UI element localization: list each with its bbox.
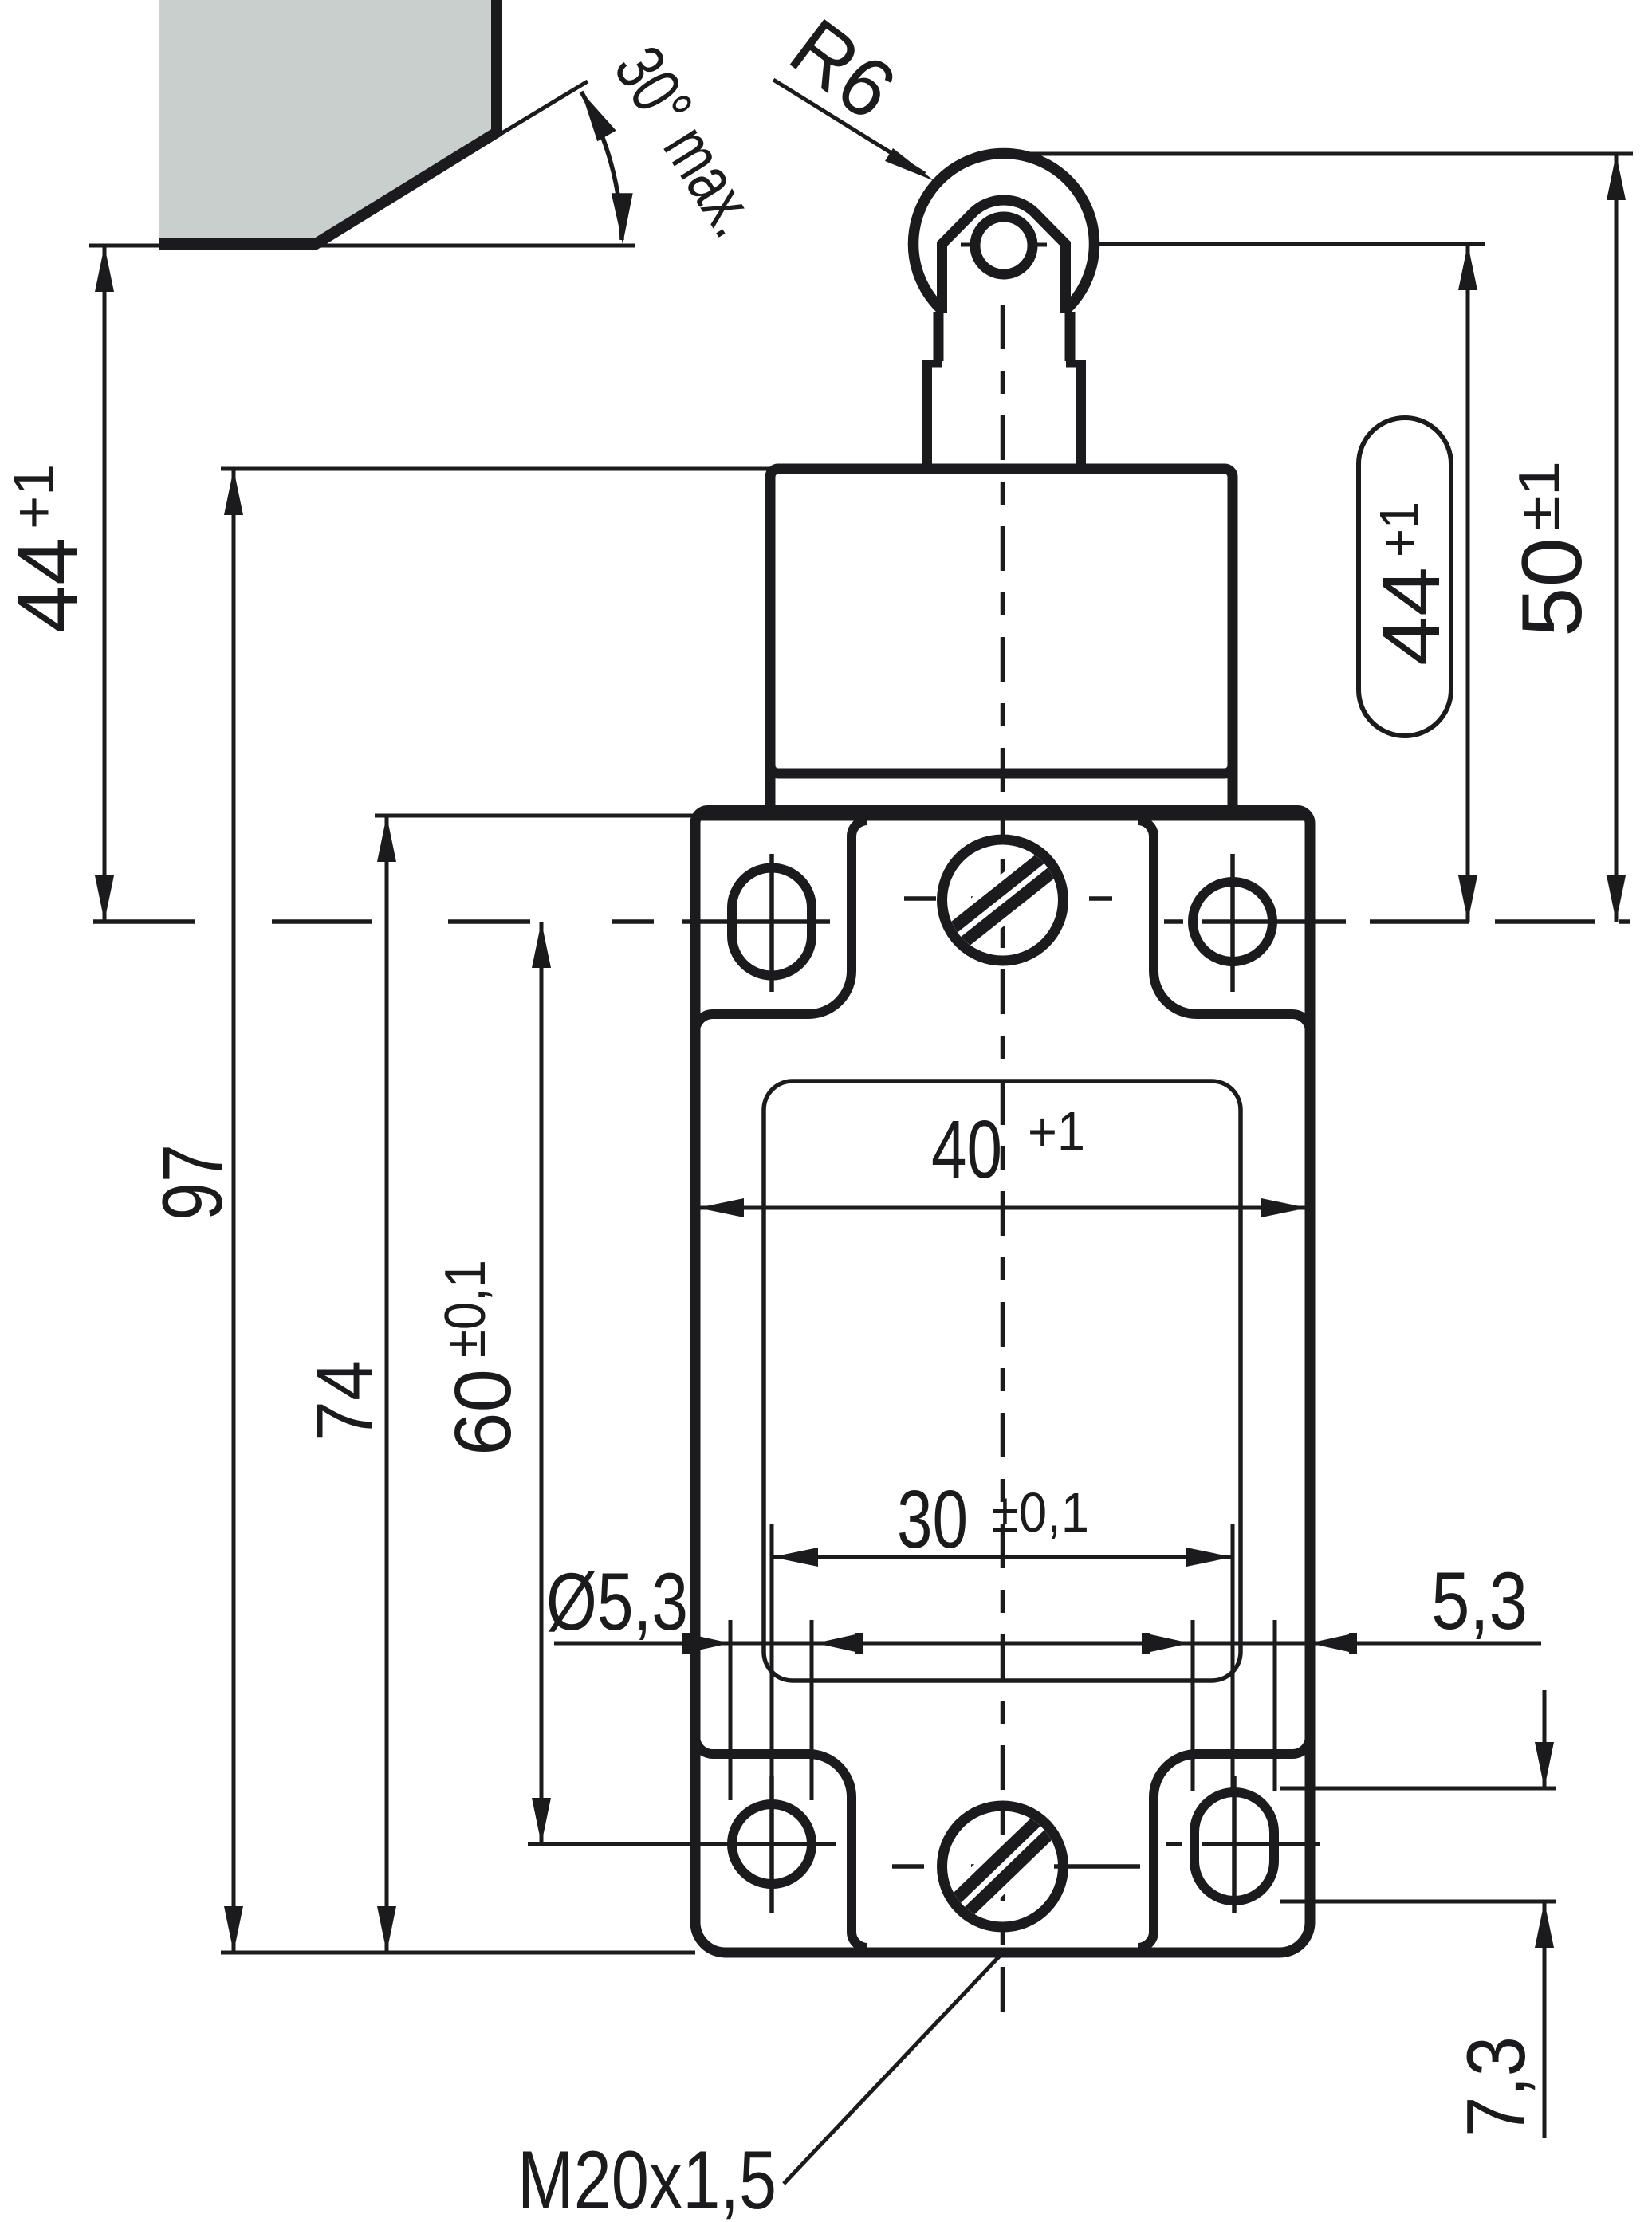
extension line head top (97 dim): [221, 467, 770, 471]
hole crosshair verticals: [769, 854, 774, 992]
extension line roller top (50 dim): [1029, 152, 1633, 156]
dim 74: [300, 816, 396, 1953]
body top edge over head width: [695, 811, 1310, 821]
dim 30+-0,1: [772, 1473, 1233, 1618]
dim 44+1 right with stadium: [1359, 244, 1477, 922]
body: [695, 811, 1310, 1953]
extension line 30 dim centers: [770, 1546, 774, 1800]
svg-text:40: 40: [931, 1103, 1002, 1195]
leader M20x1,5: [517, 1953, 1002, 2222]
extension lines hole edges: [729, 1620, 733, 1800]
top-left lug outline: [695, 820, 867, 1032]
inner label rect: [764, 1081, 1241, 1681]
top screw: [942, 840, 1064, 961]
head flange sides: [765, 765, 776, 816]
svg-text:74: 74: [300, 1360, 389, 1441]
dim 97: [144, 469, 243, 1953]
svg-text:30: 30: [897, 1473, 968, 1565]
top-right lug outline: [1138, 820, 1310, 1032]
cam (gray actuating dog): [159, 0, 497, 244]
roller wheel R6: [914, 154, 1095, 335]
bottom screw: [942, 1806, 1064, 1927]
svg-text:±0,1: ±0,1: [991, 1481, 1089, 1544]
pin center dashes: [961, 243, 978, 247]
angle arc: [581, 92, 622, 240]
extension line body top (74 dim): [375, 814, 695, 818]
svg-text:Ø5,3: Ø5,3: [546, 1556, 688, 1647]
main vertical centerline: [1001, 305, 1005, 2017]
svg-text:M20x1,5: M20x1,5: [517, 2134, 777, 2222]
plunger collar: [922, 363, 1086, 466]
baseline of 30deg angle: [89, 244, 635, 248]
dim 5,3 line both sides: [546, 1546, 1541, 1800]
arc arrow bottom: [612, 193, 633, 244]
bottom-left lug outline: [695, 1736, 867, 1948]
plunger stem upper: [938, 312, 1070, 364]
leader R6: [773, 2, 934, 181]
arc arrow top: [581, 92, 616, 141]
extension line roller pin center (44 dim right): [1092, 242, 1485, 246]
top holes horizontal centerline: [93, 919, 1630, 924]
bottom-right obround hole: [1194, 1792, 1274, 1901]
bottom screw crosshair: [892, 1864, 924, 1869]
svg-text:97: 97: [144, 1144, 240, 1221]
top screw crosshair: [904, 896, 936, 901]
bottom-right lug outline: [1138, 1736, 1310, 1948]
plunger fork (clevis): [942, 200, 1066, 319]
extension line body bottom (97/74 dims): [221, 1951, 695, 1955]
top-right round hole: [1193, 882, 1272, 962]
dim 40+1: [698, 1100, 1308, 1217]
head block: [770, 469, 1233, 773]
angled line 30deg: [316, 81, 588, 246]
dim 7,3: [1280, 1690, 1556, 2138]
svg-text:7,3: 7,3: [1450, 2036, 1543, 2137]
roller pin: [975, 217, 1032, 274]
bottom-left round hole: [732, 1804, 812, 1884]
bottom holes horizontal centerline: [528, 1842, 1320, 1846]
svg-text:5,3: 5,3: [1431, 1555, 1528, 1646]
dim 50+-1: [1504, 154, 1626, 922]
dim 60 +-0,1: [434, 922, 551, 1844]
top-left obround hole: [732, 868, 812, 976]
dim 44+1 left: [0, 246, 114, 922]
svg-text:+1: +1: [1028, 1100, 1085, 1162]
